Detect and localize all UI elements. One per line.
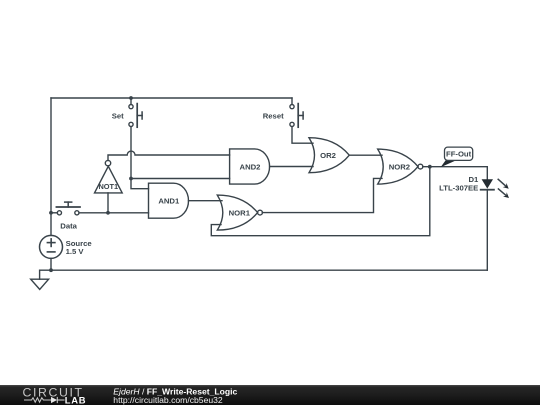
gate AND1 <box>149 183 189 218</box>
wire left rail <box>50 98 52 235</box>
flag FF-Out <box>441 147 473 167</box>
node data-not junction <box>106 211 110 215</box>
wire top rail <box>51 97 292 99</box>
gate NOR2 <box>378 149 423 184</box>
wire NOR2 output rail <box>423 166 488 168</box>
wire feedback NOR2 to NOR1 input B <box>211 167 429 236</box>
node set-and junction <box>129 177 133 181</box>
svg-text:LTL-307EE: LTL-307EE <box>439 184 478 193</box>
wire ground branch <box>40 270 51 279</box>
wire LED anode drop <box>486 167 488 180</box>
wire OR2 output to NOR2 input A <box>349 154 382 156</box>
op NOT1 <box>95 160 123 192</box>
wire set upper stub <box>130 98 132 104</box>
gate AND2 <box>230 149 270 184</box>
pushbutton Data <box>56 202 80 215</box>
svg-text:AND1: AND1 <box>158 197 180 206</box>
wire reset to OR2 input A <box>292 127 313 144</box>
logo resistor-diode line <box>24 397 65 403</box>
wire AND2 output to OR2 input B <box>270 166 313 168</box>
wire AND1 output to NOR1 input A <box>189 200 223 202</box>
wire bottom rail <box>51 269 487 271</box>
svg-text:OR2: OR2 <box>320 151 336 160</box>
svg-text:1.5 V: 1.5 V <box>66 247 85 256</box>
gate NOR1 <box>217 195 262 230</box>
node data-left junction <box>49 211 53 215</box>
svg-text:Reset: Reset <box>263 112 284 121</box>
svg-text:NOR2: NOR2 <box>389 163 410 172</box>
ground <box>31 279 49 289</box>
LED light arrows <box>498 179 509 198</box>
svg-text:Set: Set <box>112 112 124 121</box>
wire source to rail <box>50 258 52 270</box>
svg-text:NOR1: NOR1 <box>229 209 251 218</box>
footer bar <box>0 385 540 405</box>
svg-text:AND2: AND2 <box>240 162 261 171</box>
svg-text:Data: Data <box>60 221 77 230</box>
node top-set junction <box>129 96 133 100</box>
pushbutton Set <box>129 104 142 128</box>
wire set to AND2 input B <box>131 178 230 180</box>
wire data left stub <box>51 212 57 214</box>
node nor2-out junction <box>428 165 432 169</box>
wire NOR1 output to NOR2 input B <box>262 178 382 212</box>
gate OR2 <box>309 138 349 173</box>
wire LED cathode to bottom rail <box>486 190 488 271</box>
svg-text:http://circuitlab.com/cb5eu32: http://circuitlab.com/cb5eu32 <box>113 395 223 405</box>
node source-bottom junction <box>49 268 53 272</box>
wire reset drop <box>291 98 293 104</box>
svg-text:LAB: LAB <box>65 394 86 405</box>
svg-text:FF-Out: FF-Out <box>446 150 472 159</box>
svg-text:NOT1: NOT1 <box>98 182 118 191</box>
wire set to AND1 input A <box>131 179 149 189</box>
voltage source V1 <box>40 235 63 258</box>
wire NOT1 input <box>107 193 109 213</box>
diode D1 LED <box>481 179 509 198</box>
wire data to AND1 input B <box>79 212 149 214</box>
wire NOT1 output to AND2 input A (with hop) <box>108 151 230 160</box>
wire set lower <box>130 127 132 179</box>
pushbutton Reset <box>290 104 303 128</box>
